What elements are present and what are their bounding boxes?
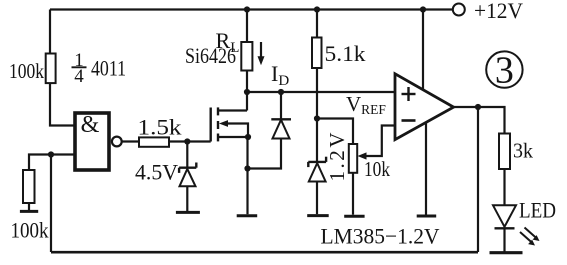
wire +12V top rail xyxy=(50,8,453,10)
terminal +12V xyxy=(453,4,465,16)
wire op-amp V- power to ground xyxy=(425,123,427,215)
node dot rail/RL xyxy=(244,6,250,12)
svg-text:4: 4 xyxy=(74,66,84,87)
wiper arrowhead xyxy=(358,152,367,159)
MOSFET Q1 Si6426 xyxy=(211,107,248,141)
ground (MOSFET source) xyxy=(237,214,258,217)
potentiometer 10k body xyxy=(349,144,357,173)
wire feedback riser to op-amp output xyxy=(477,107,479,252)
svg-text:3k: 3k xyxy=(513,139,533,163)
wire 4.5V zener column xyxy=(186,142,188,167)
LED xyxy=(493,205,516,228)
svg-text:10k: 10k xyxy=(364,157,390,181)
wire 4.5V zener anode to ground xyxy=(186,186,188,211)
svg-text:1.2V: 1.2V xyxy=(325,133,349,182)
wire NAND lower input node horizontal xyxy=(29,155,75,171)
node dot reference xyxy=(314,115,320,121)
node dot rail/5.1k xyxy=(314,6,320,12)
wire MOSFET source drop to ground xyxy=(246,137,248,214)
wire bottom feedback rail xyxy=(51,251,478,254)
ground (LED) xyxy=(490,251,523,254)
wire left drop from rail through R1 to NAND top input xyxy=(50,10,75,126)
label circled 3 xyxy=(486,49,522,91)
svg-text:4011: 4011 xyxy=(91,56,126,81)
wire diode top lead xyxy=(280,92,282,119)
node dot NAND input xyxy=(48,151,54,157)
svg-text:100k: 100k xyxy=(9,59,44,83)
node dot drain/RL xyxy=(244,89,250,95)
wire feedback drop from NAND input node to bottom rail xyxy=(50,155,52,253)
svg-text:1.5k: 1.5k xyxy=(138,115,182,140)
wire op-amp output to 3k xyxy=(454,107,505,134)
wire op-amp V+ power from rail xyxy=(422,10,424,90)
wire LED cathode to ground xyxy=(503,228,505,252)
svg-text:4.5V: 4.5V xyxy=(135,160,178,185)
wire 1.5k to MOSFET gate (through gate node) xyxy=(169,140,211,142)
ground (4.5V zener) xyxy=(176,211,200,214)
node dot body-source xyxy=(245,134,251,140)
resistor 1.5k xyxy=(139,137,169,146)
diode D1 (across MOSFET) xyxy=(271,119,291,138)
wire reference node branch to pot top xyxy=(317,119,353,145)
label 1/4 4011 xyxy=(72,50,127,87)
wire pot wiper to op-amp - input xyxy=(361,126,395,157)
svg-text:3: 3 xyxy=(495,49,514,91)
zener diode 4.5V xyxy=(179,163,196,187)
resistor R2 100k (bottom left) xyxy=(23,170,35,203)
current arrow ID xyxy=(258,42,265,65)
wire RL column (+12V to drain lead) xyxy=(246,10,248,111)
wire 5.1k column down to reference zener xyxy=(316,10,318,162)
resistor 5.1k xyxy=(312,38,322,69)
wire 3k bottom to LED xyxy=(503,169,505,206)
NAND gate U1 1/4 4011 xyxy=(75,112,122,170)
wire source junction branch to diode bottom xyxy=(248,139,282,169)
node dot gate/zener xyxy=(184,138,190,144)
ground (bottom-left 100k) xyxy=(20,210,38,213)
node dot source/diode return xyxy=(244,165,250,171)
wire drain node to op-amp + input xyxy=(247,91,395,93)
wire 1.2V zener anode to ground xyxy=(316,182,318,215)
svg-text:LM385−1.2V: LM385−1.2V xyxy=(321,224,440,249)
LED emission arrows xyxy=(520,228,540,246)
zener diode LM385 1.2V reference xyxy=(308,157,326,182)
ground (op-amp) xyxy=(417,215,437,218)
op-amp U2 xyxy=(395,74,454,140)
node dot op output xyxy=(475,104,481,110)
node dot rail/op power xyxy=(420,6,426,12)
svg-text:+12V: +12V xyxy=(474,0,523,23)
ground (pot) xyxy=(344,215,364,218)
svg-text:5.1k: 5.1k xyxy=(325,41,366,66)
wire NAND output bubble to 1.5k xyxy=(122,140,139,142)
resistor RL Si6426 load xyxy=(241,42,252,71)
wire pot bottom lead to ground xyxy=(352,173,354,215)
svg-text:LED: LED xyxy=(519,198,556,223)
resistor R1 100k (top left) xyxy=(46,54,56,84)
svg-text:Si6426: Si6426 xyxy=(185,43,236,68)
node dot drain/diode xyxy=(278,89,284,95)
wire bottom-left 100k to ground xyxy=(28,203,30,211)
ground (1.2V zener) xyxy=(307,214,329,217)
resistor 3k xyxy=(499,134,510,170)
svg-text:&: & xyxy=(81,112,100,138)
svg-text:100k: 100k xyxy=(11,218,49,243)
